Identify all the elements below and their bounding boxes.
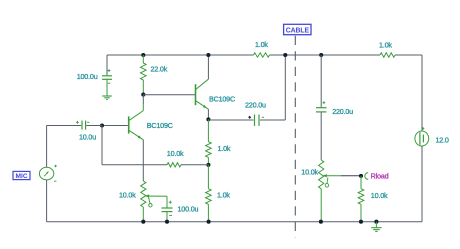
wire top rail middle segment xyxy=(270,54,381,56)
wire top rail right segment xyxy=(395,54,422,56)
svg-text:1.0k: 1.0k xyxy=(217,190,230,199)
resistor R4 1.0k xyxy=(206,165,212,222)
label R3 value 1.0k xyxy=(218,144,231,153)
svg-text:BC109C: BC109C xyxy=(209,95,235,104)
wire Q2 emitter to C3 xyxy=(208,119,253,121)
label R2 value 10.0k xyxy=(167,149,184,158)
wire Q1 emitter down xyxy=(142,140,144,181)
terminal output Rload xyxy=(365,173,368,180)
wire R2 to R3/R4 node xyxy=(181,164,208,166)
svg-text:10.0k: 10.0k xyxy=(119,190,136,199)
node C3 top on rail xyxy=(283,53,287,57)
resistor R1 22.0k xyxy=(141,55,147,95)
svg-text:Rload: Rload xyxy=(371,171,389,180)
wire feedback from Q1 base down xyxy=(101,126,103,165)
label R6 value 10.0k xyxy=(371,191,388,200)
capacitor C2 10.0u (input coupling) xyxy=(76,121,90,130)
transistor Q1 BC109C xyxy=(129,111,144,140)
wire Q1 base xyxy=(102,125,128,127)
resistor R5 1.0k (line left) xyxy=(254,53,270,57)
potentiometer P1 10.0k xyxy=(141,181,167,222)
label C5 value 220.0u xyxy=(332,107,353,116)
svg-text:1.0k: 1.0k xyxy=(379,41,392,50)
label Rload xyxy=(371,171,389,180)
node R4 bottom on rail xyxy=(207,220,211,224)
cable boundary dashed line xyxy=(294,36,296,238)
wire feedback horizontal xyxy=(102,164,167,166)
potentiometer P2 10.0k (volume) xyxy=(319,160,341,222)
label C1 value 100.0u xyxy=(77,72,98,81)
label R7 value 1.0k xyxy=(379,41,392,50)
wire C5 top lead xyxy=(320,55,322,107)
svg-text:10.0k: 10.0k xyxy=(167,149,184,158)
node Q1 base xyxy=(100,123,104,127)
svg-text:MIC: MIC xyxy=(16,173,28,180)
svg-text:1.0k: 1.0k xyxy=(255,40,268,49)
wire Q1 collector to node xyxy=(142,95,144,111)
label MIC xyxy=(13,171,30,180)
wire bottom ground rail xyxy=(47,221,422,223)
resistor R3 1.0k xyxy=(206,119,212,164)
node C5 top on rail xyxy=(319,53,323,57)
wire Q2 collector to rail xyxy=(207,55,209,79)
ground below C1 xyxy=(102,96,112,100)
label R1 value 22.0k xyxy=(151,64,168,73)
generator VG1 microphone source xyxy=(39,165,56,181)
node P2 bottom on rail xyxy=(319,220,323,224)
capacitor C1 100.0u (supply decoupling) xyxy=(102,69,112,95)
ground on bottom rail xyxy=(371,220,381,232)
capacitor C5 220.0u (receiver coupling) xyxy=(316,101,327,112)
wire C2 to Q1 base xyxy=(86,125,102,127)
svg-text:CABLE: CABLE xyxy=(286,28,310,35)
node Q2 emitter xyxy=(206,117,210,121)
svg-text:10.0u: 10.0u xyxy=(79,132,96,141)
node Q2 collector on rail xyxy=(206,53,210,57)
capacitor C3 220.0u (output coupling) xyxy=(248,115,264,126)
label R4 value 1.0k xyxy=(217,190,230,199)
label P1 value 10.0k xyxy=(119,190,136,199)
node R1 bottom / Q1 collector / Q2 base xyxy=(141,93,145,97)
wire C5 to P2 xyxy=(320,113,322,161)
node R3/R4 junction xyxy=(206,163,210,167)
label C2 value 10.0u xyxy=(79,132,96,141)
label C3 value 220.0u xyxy=(245,101,266,110)
node R6 bottom on rail xyxy=(359,220,363,224)
label V1 value 12.0 xyxy=(436,136,449,145)
wire P2 wiper to load xyxy=(341,175,361,177)
wire battery bottom xyxy=(421,146,423,222)
label C4 value 100.0u xyxy=(178,204,199,213)
wire C3 to line xyxy=(260,55,285,120)
svg-text:100.0u: 100.0u xyxy=(178,204,199,213)
svg-text:BC109C: BC109C xyxy=(147,121,173,130)
svg-text:22.0k: 22.0k xyxy=(151,64,168,73)
wire C1 top lead xyxy=(106,55,108,75)
wire MIC bottom xyxy=(46,180,48,222)
svg-text:100.0u: 100.0u xyxy=(77,72,98,81)
svg-text:10.0k: 10.0k xyxy=(301,167,318,176)
wire battery top xyxy=(421,55,423,131)
node load junction xyxy=(359,174,363,178)
wire MIC top xyxy=(47,126,82,168)
wire top supply/signal rail left segment xyxy=(107,54,254,56)
label Q1 type BC109C xyxy=(147,121,173,130)
resistor R6 10.0k (load) xyxy=(358,176,364,222)
wire Q2 emitter down xyxy=(207,109,209,119)
svg-text:1.0k: 1.0k xyxy=(218,144,231,153)
svg-text:12.0: 12.0 xyxy=(436,136,449,145)
svg-text:220.0u: 220.0u xyxy=(245,101,266,110)
label CABLE xyxy=(284,24,311,34)
transistor Q2 BC109C xyxy=(196,79,209,109)
wire P1 wiper to C4 xyxy=(166,196,168,207)
label R5 value 1.0k xyxy=(255,40,268,49)
node top rail / R1 xyxy=(141,53,145,57)
node P1 bottom on rail xyxy=(141,220,145,224)
svg-text:10.0k: 10.0k xyxy=(371,191,388,200)
label P2 value 10.0k xyxy=(301,167,318,176)
wire Q2 base xyxy=(143,94,195,96)
battery V1 12.0 xyxy=(415,127,429,146)
node C4 bottom on rail xyxy=(165,220,169,224)
capacitor C4 100.0u (emitter bypass) xyxy=(162,201,173,222)
label Q2 type BC109C xyxy=(209,95,235,104)
resistor R2 10.0k (feedback) xyxy=(167,163,181,167)
svg-text:220.0u: 220.0u xyxy=(332,107,353,116)
resistor R7 1.0k (line right) xyxy=(380,53,395,57)
